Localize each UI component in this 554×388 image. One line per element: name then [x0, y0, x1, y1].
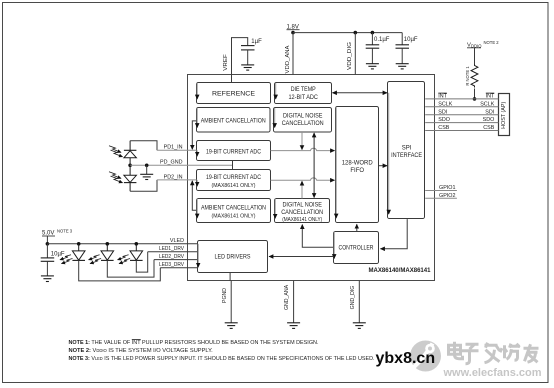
wire DNC1-DNC2 vertical double arrow — [313, 133, 315, 198]
wire GND_ANA pin — [293, 281, 295, 323]
node VLED corner junction — [46, 242, 50, 246]
node PD_GND junction — [128, 164, 132, 168]
wire VDD_DIG pin — [354, 33, 356, 75]
svg-text:PD1_IN: PD1_IN — [164, 145, 183, 151]
wire DNC1 down to ADC1-FIFO line — [301, 132, 303, 150]
emission arrows LED D3 — [118, 255, 131, 264]
wire INT bus line — [425, 98, 498, 100]
wire AMBIENT1 loop to PD1_IN — [192, 121, 196, 149]
wire AMBIENT2 loop to PD2_IN — [192, 181, 196, 210]
svg-text:NOTE 2: NOTE 2 — [484, 40, 500, 45]
capacitor C2 0.1uF — [366, 33, 390, 64]
svg-text:REFERENCE: REFERENCE — [212, 92, 255, 98]
ground (C2) — [366, 64, 379, 69]
node VDD_DIG junction — [354, 31, 358, 35]
wire 5.0V to VLED rail — [46, 236, 48, 244]
svg-text:SDO: SDO — [483, 117, 495, 123]
svg-text:VLED: VLED — [170, 238, 184, 244]
wire LED3_DRV line — [160, 267, 197, 269]
LED D2 — [101, 244, 114, 261]
svg-text:DIGITAL NOISE: DIGITAL NOISE — [283, 114, 323, 120]
svg-text:PD_GND: PD_GND — [160, 160, 183, 166]
svg-text:SCLK: SCLK — [480, 101, 494, 107]
svg-text:ybx8.cn: ybx8.cn — [376, 350, 436, 367]
svg-text:SPI: SPI — [402, 146, 412, 152]
resistor R (INT pullup) — [471, 65, 478, 88]
light arrows into PD1 — [109, 146, 123, 157]
wire PD2_IN — [157, 179, 197, 181]
block CONTROLLER — [334, 232, 379, 264]
svg-text:LED3_DRV: LED3_DRV — [159, 262, 184, 268]
svg-text:NOTE 2: VDDIO IS THE SYSTEM I/: NOTE 2: VDDIO IS THE SYSTEM I/O VOLTAGE … — [69, 348, 214, 354]
svg-text:NOTE 3: NOTE 3 — [57, 229, 73, 234]
wire VLED rail — [47, 243, 197, 245]
svg-text:CSB: CSB — [483, 125, 494, 131]
svg-text:LED DRIVERS: LED DRIVERS — [215, 255, 251, 261]
svg-text:NOTE 1: THE VALUE OF INT PULLU: NOTE 1: THE VALUE OF INT PULLUP RESISTOR… — [69, 340, 319, 346]
block SPI INTERFACE — [388, 82, 425, 219]
svg-text:(MAX86141 ONLY): (MAX86141 ONLY) — [212, 183, 256, 189]
svg-text:SDI: SDI — [438, 109, 447, 115]
svg-text:SDI: SDI — [485, 109, 494, 115]
svg-text:MAX86140/MAX86141: MAX86140/MAX86141 — [369, 267, 431, 274]
node LED1 tap — [77, 242, 81, 246]
block 128-WORD FIFO — [336, 107, 379, 223]
svg-text:CANCELLATION: CANCELLATION — [282, 121, 324, 127]
svg-text:INT: INT — [438, 94, 447, 100]
ground (GND_DIG) — [353, 323, 366, 329]
svg-text:12-BIT ADC: 12-BIT ADC — [288, 95, 318, 101]
wire SDO bus line — [425, 122, 498, 124]
node LED2 tap — [106, 242, 110, 246]
wire CONTROLLER to FIFO — [356, 224, 358, 231]
block DIGITAL NOISE CANCELLATION (2, MAX86141 ONLY) — [275, 199, 330, 224]
ground (C3) — [396, 64, 409, 69]
svg-text:DIE TEMP: DIE TEMP — [291, 87, 316, 93]
svg-text:GPIO1: GPIO1 — [439, 185, 455, 191]
svg-text:www.elecfans.com: www.elecfans.com — [443, 367, 542, 379]
block HOST (AP) — [499, 94, 510, 136]
svg-text:VDD_ANA: VDD_ANA — [285, 45, 291, 73]
wire resistor to INT line — [474, 89, 476, 99]
svg-text:128-WORD: 128-WORD — [342, 161, 374, 167]
svg-text:1µF: 1µF — [251, 39, 262, 45]
wire GPIO1 — [425, 190, 457, 192]
svg-text:GND_DIG: GND_DIG — [350, 286, 356, 310]
wire 1.8V rail — [293, 32, 402, 34]
svg-text:(MAX86141 ONLY): (MAX86141 ONLY) — [282, 217, 322, 223]
svg-text:10µF: 10µF — [51, 251, 65, 257]
wire DNC2 up to ADC2-FIFO line — [301, 181, 303, 198]
svg-text:INTERFACE: INTERFACE — [391, 153, 422, 159]
svg-text:AMBIENT CANCELLATION: AMBIENT CANCELLATION — [201, 119, 266, 125]
LED D3 — [130, 244, 143, 261]
ground (C1) — [241, 65, 254, 70]
photodiode PD1 — [124, 141, 136, 166]
block AMBIENT CANCELLATION (2, MAX86141 ONLY) — [197, 199, 271, 223]
block DIE TEMP 12-BIT ADC — [275, 83, 332, 104]
svg-text:AMBIENT CANCELLATION: AMBIENT CANCELLATION — [201, 206, 266, 212]
wire CONTROLLER to LED DRIVERS — [269, 256, 334, 258]
svg-text:PD2_IN: PD2_IN — [164, 174, 183, 180]
overline chip-side INT — [438, 92, 447, 94]
block REFERENCE — [197, 83, 271, 104]
wire GPIO2 — [425, 197, 457, 199]
wire VDD_ANA pin — [292, 33, 294, 75]
ground (C4) — [41, 276, 54, 282]
svg-text:PGND: PGND — [222, 288, 228, 303]
svg-text:GPIO2: GPIO2 — [439, 193, 455, 199]
block 19-BIT CURRENT ADC (2, MAX86141 ONLY) — [197, 170, 271, 191]
wire GND_DIG pin — [358, 281, 360, 323]
capacitor C1 1uF — [241, 39, 262, 65]
wire SDI bus line — [425, 114, 498, 116]
svg-text:LED2_DRV: LED2_DRV — [159, 254, 184, 260]
svg-text:VREF: VREF — [223, 53, 229, 70]
node 1.8V supply — [287, 24, 300, 34]
node ground tap — [145, 164, 149, 168]
svg-text:0.1µF: 0.1µF — [374, 37, 390, 43]
wire PD_GND — [130, 164, 232, 166]
watermark logo circle — [410, 341, 441, 372]
wire SCLK bus line — [425, 106, 498, 108]
emission arrows LED D1 — [60, 255, 73, 264]
note 2 text — [69, 348, 214, 354]
wire ADC2 to FIFO (hop over vertical) — [271, 178, 335, 180]
capacitor C3 10uF — [396, 33, 418, 64]
node INT junction — [473, 97, 477, 101]
svg-text:DIGITAL NOISE: DIGITAL NOISE — [282, 203, 322, 209]
svg-text:R NOTE 1: R NOTE 1 — [465, 66, 470, 86]
svg-text:10µF: 10µF — [404, 37, 418, 43]
wire CONTROLLER to DNC2 — [302, 225, 333, 248]
wire VDDIO to resistor — [474, 48, 476, 65]
svg-text:SCLK: SCLK — [438, 101, 452, 107]
wire LED1_DRV line — [148, 251, 198, 253]
overline host-side INT — [486, 92, 495, 94]
ground (PD_GND) — [140, 165, 153, 179]
svg-text:HOST (AP): HOST (AP) — [501, 102, 507, 129]
svg-text:19-BIT CURRENT ADC: 19-BIT CURRENT ADC — [206, 175, 262, 181]
capacitor C4 10uF — [41, 244, 65, 276]
node LED3 tap — [135, 242, 139, 246]
block AMBIENT CANCELLATION (top) — [197, 108, 271, 133]
wire DIE TEMP to SPI (double arrow) — [333, 92, 388, 94]
svg-text:CONTROLLER: CONTROLLER — [339, 246, 375, 252]
svg-text:(MAX86141 ONLY): (MAX86141 ONLY) — [212, 214, 256, 220]
pin labels host side: INT SCLK SDI SDO CSB — [480, 94, 495, 132]
overline INT in note 1 — [132, 338, 141, 340]
chip boundary MAX86140/MAX86141 — [188, 75, 435, 281]
svg-text:SDO: SDO — [438, 117, 450, 123]
pin labels chip side: INT SCLK SDI SDO CSB — [438, 94, 452, 132]
LED D1 — [72, 244, 85, 261]
wire FIFO to SPI — [379, 165, 387, 167]
wire LED2_DRV line — [154, 259, 198, 261]
wire LED1 route to LED3_DRV — [79, 260, 161, 281]
block LED DRIVERS — [198, 241, 268, 273]
note 3 text — [69, 356, 375, 362]
wire LED3 route to LED1_DRV — [136, 252, 147, 272]
photodiode PD2 — [124, 165, 136, 191]
light arrows into PD2 — [109, 172, 123, 183]
ground (PGND) — [225, 323, 238, 329]
block 19-BIT CURRENT ADC (1) — [197, 141, 271, 161]
wire PD2 bottom loop — [130, 180, 157, 191]
wire ADC1 to FIFO (hop over vertical) — [271, 148, 335, 150]
wire SPI to CONTROLLER — [381, 219, 408, 249]
ground (GND_ANA) — [287, 323, 300, 329]
wire PGND inside chip — [229, 272, 231, 281]
block DIGITAL NOISE CANCELLATION (top) — [274, 108, 332, 133]
node 5.0V supply — [42, 229, 73, 237]
svg-text:NOTE 3: VLED IS THE LED POWER: NOTE 3: VLED IS THE LED POWER SUPPLY INP… — [69, 356, 375, 362]
wire PD1 top loop — [130, 141, 157, 151]
wire PD1_IN — [157, 149, 197, 151]
wire LED2 route to LED2_DRV — [107, 260, 154, 278]
node VDDIO supply — [467, 40, 499, 49]
wire CSB bus line — [425, 130, 498, 132]
svg-text:INT: INT — [486, 94, 495, 100]
svg-text:CANCELLATION: CANCELLATION — [281, 210, 323, 216]
svg-text:LED1_DRV: LED1_DRV — [159, 246, 184, 252]
node 0.1uF junction — [371, 31, 375, 35]
svg-text:VDD_DIG: VDD_DIG — [347, 42, 353, 70]
note 1 text — [69, 340, 319, 346]
wire VREF pin to REFERENCE — [232, 38, 248, 83]
svg-text:GND_ANA: GND_ANA — [284, 284, 290, 310]
emission arrows LED D2 — [89, 255, 102, 264]
svg-text:FIFO: FIFO — [350, 168, 364, 174]
wire PD_GND to ADC boxes vertical — [232, 161, 234, 170]
svg-text:19-BIT CURRENT ADC: 19-BIT CURRENT ADC — [206, 149, 262, 155]
wire PGND pin — [230, 281, 232, 323]
watermark CJK pseudo-glyphs (dianzifashaoyou) — [450, 343, 540, 365]
svg-text:CSB: CSB — [438, 125, 449, 131]
